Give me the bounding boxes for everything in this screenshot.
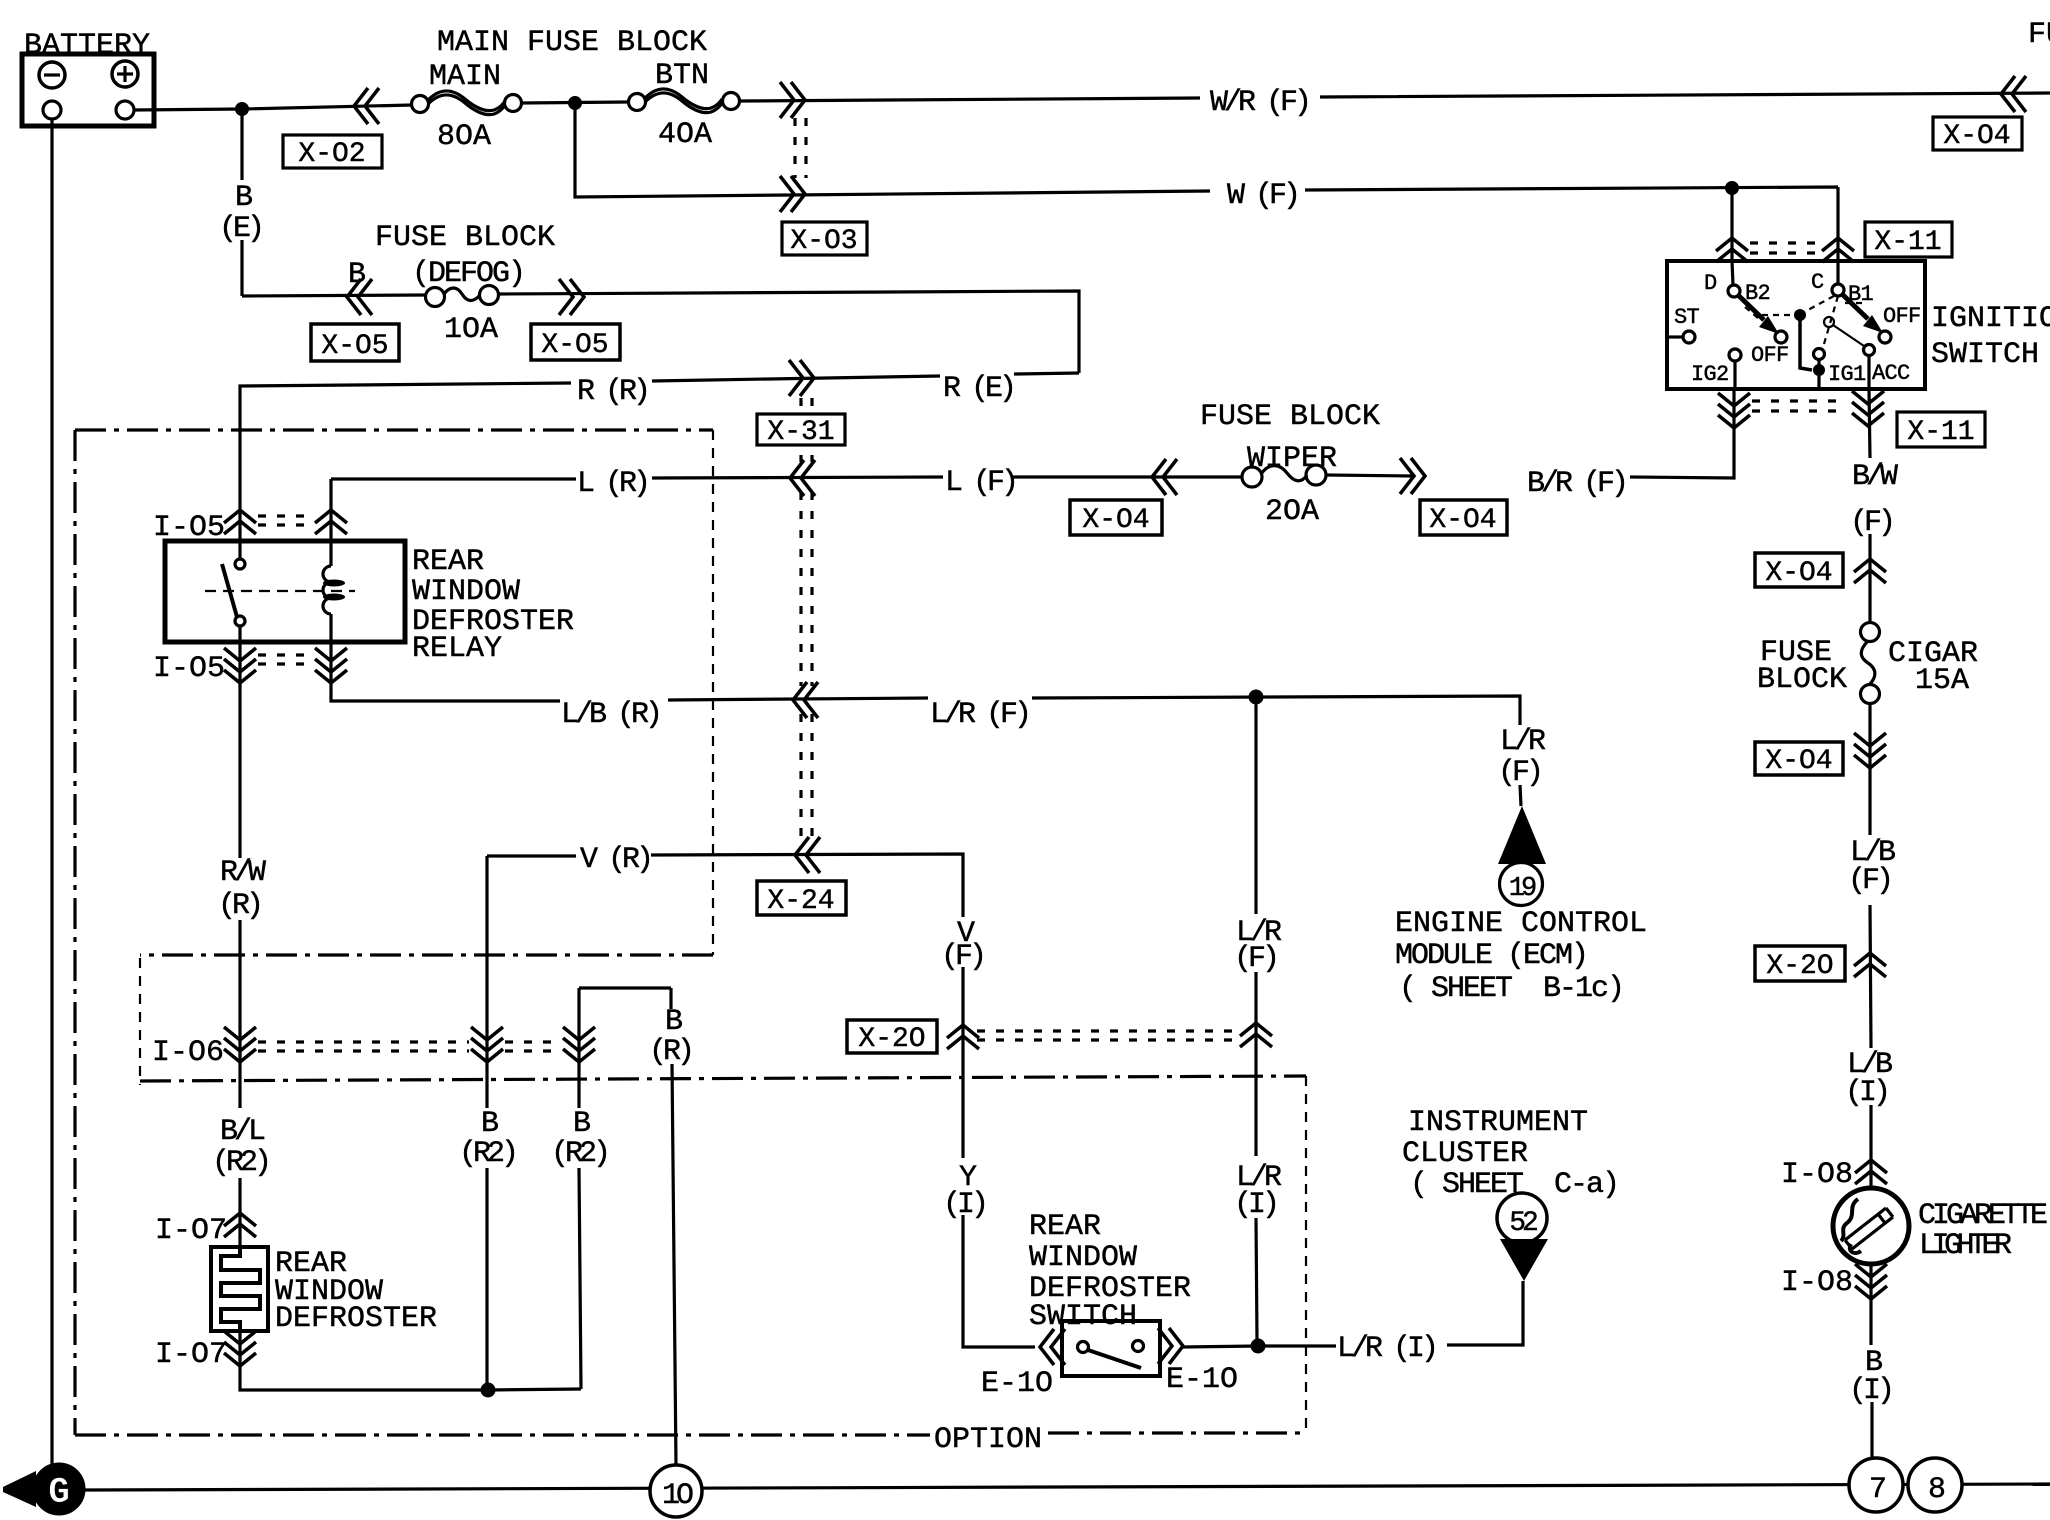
svg-text:REAR: REAR [412, 545, 484, 579]
wire R(E)/R(R) return to relay [240, 373, 1079, 541]
connector X-31/X-24 dashed links [801, 398, 812, 840]
ground G symbol [3, 1463, 85, 1515]
connector X-05 chevron right [559, 279, 584, 315]
node junction W(F) / ignition D [1726, 182, 1739, 195]
svg-text:(R2): (R2) [212, 1146, 268, 1180]
fuse MAIN 80A [412, 60, 522, 154]
node circle 7 [1849, 1458, 1903, 1512]
svg-text:I-O5: I-O5 [153, 652, 225, 686]
svg-text:4OA: 4OA [658, 118, 712, 152]
wire mid contact to IG1 [1800, 320, 1812, 370]
wire L(R)/L(F) from relay coil to wiper fuse [331, 389, 1734, 541]
fuse CIGAR 15A [1757, 623, 1978, 704]
svg-text:1OA: 1OA [444, 313, 498, 347]
svg-text:X-O3: X-O3 [790, 226, 857, 257]
wire B to DEFOG fuse [242, 291, 1079, 373]
connector X-03 chevron on W(F) [780, 176, 805, 212]
svg-text:X-11: X-11 [1874, 227, 1941, 258]
svg-text:X-O4: X-O4 [1943, 121, 2010, 152]
connector X-05 chevron left [347, 279, 372, 315]
svg-text:G: G [48, 1472, 70, 1513]
svg-text:1O: 1O [662, 1479, 693, 1513]
heater REAR WINDOW DEFROSTER element [211, 1247, 437, 1336]
svg-text:C: C [1811, 270, 1824, 295]
connector E-10 chevron right [1158, 1328, 1183, 1364]
node junction L/R(F) branch [1249, 690, 1263, 704]
wire ACC to B/W(F) right column [1869, 389, 1872, 1465]
svg-text:L/R: L/R [1500, 725, 1546, 759]
svg-text:X-O4: X-O4 [1429, 505, 1496, 536]
svg-text:L (F): L (F) [945, 466, 1015, 500]
wire L/B(R) from relay coil [331, 642, 1521, 806]
svg-text:(F): (F) [1498, 756, 1540, 790]
svg-text:B/R (F): B/R (F) [1527, 467, 1625, 501]
connector X-04 label left [1070, 500, 1162, 536]
svg-text:B: B [573, 1107, 590, 1141]
svg-text:(I): (I) [1234, 1188, 1276, 1222]
svg-text:( SHEET B-1c): ( SHEET B-1c) [1399, 972, 1623, 1006]
svg-text:E-1O: E-1O [981, 1367, 1053, 1401]
svg-text:I-O6: I-O6 [152, 1036, 224, 1070]
svg-text:(I): (I) [1845, 1076, 1887, 1110]
fuse BTN 40A [629, 59, 740, 152]
fuse DEFOG 10A [426, 286, 499, 348]
svg-text:19: 19 [1509, 874, 1536, 904]
svg-text:(R2): (R2) [459, 1137, 515, 1171]
terminal triangle from instrument cluster [1500, 1239, 1548, 1281]
connector X-02 chevron [354, 88, 379, 124]
svg-text:X-2O: X-2O [1766, 951, 1833, 982]
svg-text:(I): (I) [943, 1188, 985, 1222]
svg-text:ACC: ACC [1872, 361, 1910, 386]
connector X-04 label and chevron (upper right column) [1755, 553, 1843, 589]
node junction battery bus / B(E) [236, 103, 249, 116]
svg-text:(R2): (R2) [551, 1137, 607, 1171]
svg-text:E-1O: E-1O [1166, 1363, 1238, 1397]
svg-text:WINDOW: WINDOW [1029, 1241, 1137, 1275]
connector X-11 label upper [1865, 222, 1952, 258]
svg-text:(F): (F) [941, 940, 983, 974]
svg-text:D: D [1704, 271, 1717, 296]
svg-text:7: 7 [1869, 1473, 1885, 1507]
svg-text:MAIN: MAIN [429, 60, 501, 94]
svg-text:INSTRUMENT: INSTRUMENT [1408, 1106, 1588, 1140]
svg-text:B/L: B/L [220, 1115, 265, 1149]
svg-text:W/R (F): W/R (F) [1210, 86, 1308, 120]
svg-text:FUSE BLOCK: FUSE BLOCK [375, 221, 555, 255]
svg-text:SWITCH: SWITCH [1029, 1300, 1137, 1334]
svg-text:LIGHTER: LIGHTER [1919, 1229, 2012, 1263]
svg-text:REAR: REAR [1029, 1210, 1101, 1244]
lamp CIGARETTE LIGHTER [1833, 1188, 2047, 1264]
connector X-02 label [283, 135, 382, 170]
wire L/R(F) to ECM [1256, 697, 1257, 1340]
wire B(R2) middle column and B(R) column [579, 988, 676, 1465]
svg-text:IGNITION: IGNITION [1931, 302, 2050, 336]
node circle 19 [1500, 863, 1543, 906]
svg-text:IG1: IG1 [1828, 362, 1866, 387]
connector X-04 label and chevron (lower) [1755, 742, 1843, 777]
connector X-31 chevron on L wire [790, 460, 815, 496]
node junction MAIN fuse output / W(F) [569, 97, 582, 110]
svg-text:I-O8: I-O8 [1781, 1266, 1853, 1300]
svg-text:X-24: X-24 [767, 886, 834, 917]
connector X-05 label left [311, 324, 399, 362]
svg-text:B: B [665, 1005, 682, 1039]
connector X-24 chevron on V wire [795, 837, 820, 873]
terminal triangle to ECM [1498, 806, 1546, 864]
svg-text:L/R (I): L/R (I) [1337, 1332, 1435, 1366]
svg-text:(F): (F) [1234, 942, 1276, 976]
connector X-04 chevron left of wiper fuse [1152, 459, 1177, 495]
connector X-11 chevrons below ignition switch [1718, 393, 1750, 428]
svg-text:(R): (R) [649, 1035, 691, 1069]
svg-text:B: B [481, 1107, 498, 1141]
wire V(R) column [487, 854, 1035, 1390]
relay REAR WINDOW DEFROSTER RELAY [165, 541, 574, 666]
svg-text:2OA: 2OA [1265, 495, 1319, 529]
svg-text:ST: ST [1674, 305, 1700, 330]
svg-text:SWITCH: SWITCH [1931, 338, 2039, 372]
wire W(F) from MAIN fuse junction to ignition switch [575, 103, 1838, 261]
svg-text:X-O4: X-O4 [1082, 505, 1149, 536]
svg-text:R (E): R (E) [943, 372, 1013, 406]
dashed position lines [1745, 296, 1862, 344]
svg-text:BATTERY: BATTERY [24, 29, 150, 63]
svg-text:X-O5: X-O5 [541, 330, 608, 361]
connector X-24 label [757, 881, 846, 917]
wire relay switch to defroster (R/W, B/L column) [240, 642, 581, 1390]
svg-text:X-O4: X-O4 [1765, 746, 1832, 777]
svg-text:ENGINE CONTROL: ENGINE CONTROL [1395, 907, 1647, 941]
switch REAR WINDOW DEFROSTER SWITCH [1062, 1321, 1160, 1376]
svg-text:15A: 15A [1915, 664, 1969, 698]
connector X-31 label [757, 414, 845, 448]
svg-text:L/R (F): L/R (F) [930, 698, 1028, 732]
connector X-20 label and chevron (right column) [1755, 946, 1845, 982]
svg-text:RELAY: RELAY [412, 632, 502, 666]
wire B(E) drop from battery bus [240, 109, 243, 296]
battery BATTERY [22, 29, 154, 126]
wire main battery bus B [134, 93, 2050, 110]
connector X-04 chevron right of wiper fuse [1400, 458, 1425, 494]
node circle 8 [1908, 1458, 1962, 1512]
svg-text:W (F): W (F) [1227, 179, 1297, 213]
connector X-04 label right [1420, 500, 1507, 536]
svg-text:MODULE (ECM): MODULE (ECM) [1395, 939, 1587, 973]
connector X-03 label [782, 222, 867, 257]
switch blade D-OFF [1739, 296, 1764, 320]
wire ACC contact line [1833, 325, 1864, 346]
svg-text:(DEFOG): (DEFOG) [412, 257, 524, 291]
svg-text:MAIN FUSE BLOCK: MAIN FUSE BLOCK [437, 26, 707, 60]
connector X-05 label right [531, 324, 620, 361]
svg-text:(R): (R) [218, 889, 260, 923]
node circle 52 [1497, 1193, 1547, 1243]
connector E-10 chevron left [1040, 1329, 1065, 1365]
svg-text:X-11: X-11 [1907, 417, 1974, 448]
svg-text:8OA: 8OA [437, 120, 491, 154]
svg-text:CIGARETTE: CIGARETTE [1918, 1199, 2047, 1233]
svg-text:DEFROSTER: DEFROSTER [275, 1302, 437, 1336]
connector X-31 chevron on R wire [789, 360, 814, 396]
switch blade C-OFF [1843, 295, 1868, 319]
connector X-04 chevron top right [2001, 76, 2026, 112]
svg-text:CLUSTER: CLUSTER [1402, 1137, 1528, 1171]
svg-text:X-O2: X-O2 [298, 139, 365, 170]
svg-text:B: B [235, 181, 252, 215]
svg-text:FU: FU [2028, 18, 2050, 52]
connector X-24 chevron on L/B wire [793, 682, 818, 718]
svg-text:L/B (R): L/B (R) [561, 698, 659, 732]
wire battery negative to ground G [50, 119, 53, 1466]
svg-text:(I): (I) [1849, 1374, 1891, 1408]
svg-text:OFF: OFF [1883, 304, 1921, 329]
svg-text:(F): (F) [1850, 506, 1892, 540]
svg-text:I-O7: I-O7 [155, 1214, 227, 1248]
wire L/R(I) from cluster to switch [1183, 1281, 1523, 1347]
svg-text:OPTION: OPTION [934, 1423, 1042, 1457]
option boundary dash-dot [75, 430, 1306, 1435]
svg-text:52: 52 [1509, 1208, 1537, 1239]
connector X-03 chevron on main bus [780, 82, 805, 118]
switch U IGNITION SWITCH [1667, 261, 2050, 389]
svg-text:X-O5: X-O5 [321, 331, 388, 362]
connector X-11 label lower [1897, 412, 1985, 448]
svg-text:X-2O: X-2O [858, 1024, 925, 1055]
svg-text:I-O8: I-O8 [1781, 1158, 1853, 1192]
connector X-03 dashed link [795, 118, 806, 178]
svg-text:I-O7: I-O7 [155, 1338, 227, 1372]
svg-text:IG2: IG2 [1691, 362, 1729, 387]
node circle 10 [650, 1465, 702, 1517]
svg-text:R/W: R/W [220, 856, 266, 890]
svg-text:(F): (F) [1848, 864, 1890, 898]
svg-text:X-31: X-31 [767, 417, 834, 448]
svg-text:X-O4: X-O4 [1765, 558, 1832, 589]
svg-text:(E): (E) [219, 212, 261, 246]
svg-text:BLOCK: BLOCK [1757, 663, 1847, 697]
svg-text:FUSE BLOCK: FUSE BLOCK [1200, 400, 1380, 434]
connector X-20 label and chevrons row [847, 1020, 937, 1055]
wire bottom ground bus [85, 1484, 2050, 1490]
node mid contact [1795, 310, 1806, 321]
connector X-11 chevrons above ignition switch [1716, 238, 1748, 262]
node junction B(R2) columns [481, 1383, 495, 1397]
svg-text:V (R): V (R) [580, 843, 650, 877]
svg-text:I-O5: I-O5 [153, 511, 225, 545]
fuse WIPER 20A [1242, 465, 1326, 529]
svg-text:R (R): R (R) [577, 375, 647, 409]
connector X-04 label top right [1933, 117, 2022, 152]
svg-text:L (R): L (R) [577, 467, 647, 501]
svg-text:OFF: OFF [1751, 343, 1789, 368]
node junction L/R(I) [1251, 1339, 1265, 1353]
svg-text:B/W: B/W [1852, 460, 1898, 494]
svg-text:WINDOW: WINDOW [412, 575, 520, 609]
